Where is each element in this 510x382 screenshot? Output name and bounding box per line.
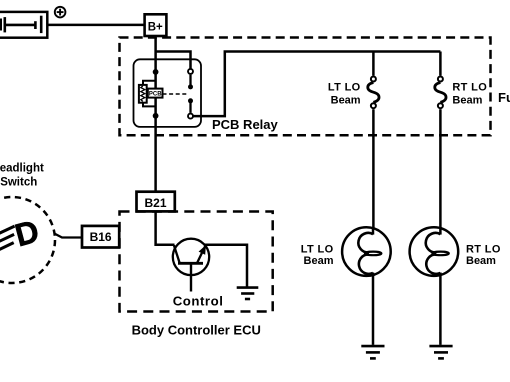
connector B21: [137, 192, 175, 212]
junction dot top: [153, 69, 159, 75]
relay coil PCB label box: [148, 89, 163, 98]
wire battery to B+: [47, 24, 145, 27]
svg-text:LT LO: LT LO: [301, 243, 334, 255]
wire relay output to fuse bus: [193, 52, 440, 117]
svg-text:Beam: Beam: [304, 255, 334, 267]
headlight switch dashed circle: [0, 197, 55, 283]
svg-text:PCB: PCB: [149, 92, 162, 98]
headlight low-beam icon: [11, 213, 43, 254]
relay mechanical linkage dashed: [163, 93, 188, 95]
relay contact terminals: [188, 69, 193, 119]
svg-text:Headlight: Headlight: [0, 162, 44, 174]
svg-text:LT LO: LT LO: [328, 82, 361, 94]
svg-text:Beam: Beam: [452, 95, 482, 107]
svg-text:Body Controller ECU: Body Controller ECU: [132, 322, 261, 337]
svg-text:B21: B21: [145, 196, 167, 210]
battery positive terminal symbol: [55, 7, 66, 18]
svg-text:Fuse: Fuse: [498, 90, 510, 105]
wire B21 to transistor: [156, 211, 175, 244]
connector B16: [82, 226, 119, 248]
wire switch to B16: [54, 234, 82, 238]
svg-text:B16: B16: [90, 230, 112, 244]
transistor Q1: [173, 239, 209, 292]
ground transistor: [237, 288, 259, 299]
wire branch to relay contact: [156, 52, 191, 70]
svg-text:Beam: Beam: [331, 95, 361, 107]
lamp RT LO Beam: [410, 227, 459, 345]
lamp LT LO Beam: [342, 227, 391, 345]
junction dot bottom: [153, 113, 159, 119]
svg-text:RT LO: RT LO: [466, 243, 501, 255]
svg-text:B+: B+: [148, 21, 163, 33]
battery B1: [0, 12, 47, 38]
wire B+ down into relay: [154, 38, 157, 192]
svg-text:PCB Relay: PCB Relay: [212, 117, 279, 132]
wire transistor emitter to ground: [205, 245, 248, 288]
relay K1 body: [134, 59, 202, 127]
svg-text:Switch: Switch: [0, 176, 37, 188]
relay/fuse dashed enclosure: [120, 38, 491, 136]
relay coil: [139, 81, 156, 107]
svg-text:RT LO: RT LO: [452, 82, 487, 94]
ground right lamp: [429, 346, 452, 358]
Body Controller ECU dashed box: [120, 212, 273, 312]
ground left lamp: [361, 346, 384, 358]
fuse F2 RT LO Beam: [435, 52, 446, 228]
fuse F1 LT LO Beam: [368, 52, 379, 228]
svg-text:Beam: Beam: [466, 255, 496, 267]
connector B+: [145, 14, 167, 36]
svg-text:Control: Control: [173, 294, 224, 309]
